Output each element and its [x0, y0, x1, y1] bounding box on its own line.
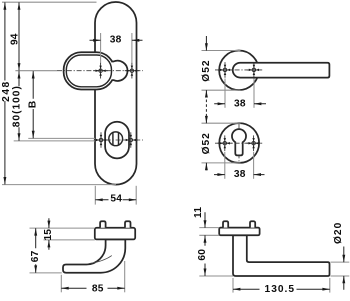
svg-text:Ø52: Ø52: [201, 132, 212, 154]
svg-text:94: 94: [10, 33, 21, 45]
svg-text:38: 38: [234, 98, 246, 109]
svg-text:67: 67: [30, 250, 41, 262]
svg-text:B: B: [28, 101, 39, 109]
svg-text:80(100): 80(100): [11, 85, 22, 127]
svg-text:130.5: 130.5: [265, 284, 296, 295]
svg-text:38: 38: [110, 34, 122, 45]
svg-text:Ø20: Ø20: [333, 222, 344, 244]
svg-text:15: 15: [43, 229, 54, 241]
svg-text:Ø52: Ø52: [201, 59, 212, 81]
svg-text:38: 38: [234, 169, 246, 180]
svg-text:54: 54: [110, 194, 122, 205]
svg-text:60: 60: [197, 249, 208, 261]
svg-text:11: 11: [193, 207, 204, 218]
svg-text:85: 85: [92, 284, 104, 295]
